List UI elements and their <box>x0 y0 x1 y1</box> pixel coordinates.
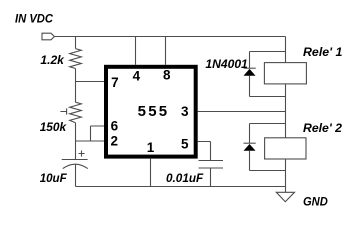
svg-text:GND: GND <box>303 195 328 209</box>
svg-text:150k: 150k <box>40 120 68 134</box>
svg-text:4: 4 <box>133 69 141 84</box>
svg-text:10uF: 10uF <box>40 171 68 185</box>
svg-text:6: 6 <box>111 118 119 133</box>
svg-text:Rele' 2: Rele' 2 <box>303 121 342 135</box>
svg-text:8: 8 <box>163 68 171 83</box>
svg-text:7: 7 <box>111 75 119 90</box>
svg-text:5: 5 <box>181 136 189 151</box>
svg-text:555: 555 <box>138 103 170 120</box>
svg-text:2: 2 <box>110 134 118 149</box>
svg-text:3: 3 <box>181 104 189 119</box>
svg-text:1: 1 <box>147 140 155 155</box>
svg-text:1.2k: 1.2k <box>40 53 65 67</box>
svg-text:0.01uF: 0.01uF <box>166 171 204 185</box>
svg-text:IN VDC: IN VDC <box>15 11 53 25</box>
svg-text:1N4001: 1N4001 <box>205 57 248 71</box>
svg-text:Rele' 1: Rele' 1 <box>303 45 343 59</box>
